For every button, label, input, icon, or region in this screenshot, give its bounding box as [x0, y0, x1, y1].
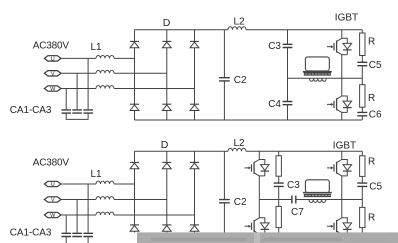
terminal U (top): [44, 56, 61, 61]
watermark gray band: [137, 232, 398, 243]
wire IGBT2 emitter to DC- (top): [341, 112, 343, 120]
svg-text:C3: C3: [268, 41, 281, 52]
wire bridge leg 3 (top): [194, 30, 196, 120]
svg-text:C5: C5: [369, 181, 382, 192]
wire left leg middle (bottom): [258, 176, 260, 218]
capacitor C2 (bottom): [219, 200, 230, 203]
resistor R upper-left (bottom): [276, 156, 281, 176]
inductor L1 phase V coil (bottom): [96, 197, 114, 200]
IGBT Q4 lower-left (bottom): [244, 218, 269, 234]
inductor L1 phase W coil (bottom): [96, 212, 114, 215]
wire left snubber column (bottom): [278, 151, 280, 237]
diode D5 upper leg3 (bottom): [190, 162, 199, 168]
wire stub V to CA2 (bottom): [76, 200, 78, 233]
diode D2 lower leg3 (bottom): [190, 225, 199, 231]
wire phase W to L1 and bridge leg 3 (bottom): [61, 214, 195, 216]
wire stub U to CA3 (top): [87, 58, 89, 109]
svg-text:R: R: [368, 36, 375, 47]
terminal V (top): [44, 71, 61, 76]
svg-text:IGBT: IGBT: [335, 13, 358, 24]
resistor R lower-left (bottom): [276, 206, 281, 227]
diode D6 lower leg2 (top): [162, 104, 171, 110]
svg-text:R: R: [368, 93, 375, 104]
svg-text:L2: L2: [233, 16, 245, 27]
svg-text:L1: L1: [90, 42, 102, 53]
resistor R lower-right (bottom): [360, 207, 365, 227]
capacitor CA1 (top): [62, 110, 72, 113]
diode D5 upper leg3 (top): [190, 41, 199, 47]
svg-text:C2: C2: [234, 197, 247, 208]
wire mid rail (top): [288, 77, 363, 79]
diode D6 lower leg2 (bottom): [162, 225, 171, 231]
diode D1 upper leg1 (top): [130, 41, 139, 47]
wire phase V to L1 and bridge leg 2 (bottom): [61, 199, 167, 201]
wire IGBT2 collector (top): [341, 78, 343, 96]
wire bridge leg 1 (top): [134, 30, 136, 120]
svg-text:R: R: [368, 212, 375, 223]
diode D3 upper leg2 (top): [162, 41, 171, 47]
inductor L1 phase U coil (bottom): [96, 181, 114, 184]
core lamination hatch bar (top): [304, 73, 331, 75]
capacitor C3 (top): [283, 44, 293, 47]
inductor L1 phase U coil (top): [96, 56, 114, 59]
svg-text:C6: C6: [369, 109, 382, 120]
induction coil of load transformer (top): [309, 78, 326, 81]
diode D3 upper leg2 (bottom): [162, 162, 171, 168]
capacitor C7 (bottom): [292, 196, 296, 204]
wire DC+ top rail (top): [135, 29, 363, 31]
wire C3/C4 branch (top): [287, 30, 289, 120]
resistor R upper-right (bottom): [360, 156, 365, 177]
resistor R lower (top): [360, 85, 365, 108]
svg-text:V: V: [51, 198, 55, 204]
resistor R upper (top): [360, 33, 365, 56]
wire DC+ top rail (bottom): [135, 150, 363, 152]
svg-text:D: D: [161, 139, 169, 151]
IGBT Q3 upper-left (bottom): [244, 160, 269, 176]
wire phase U to L1 and bridge leg 1 (bottom): [61, 183, 135, 185]
svg-text:C7: C7: [291, 207, 304, 218]
svg-text:L1: L1: [90, 169, 102, 180]
wire right snubber column (bottom): [361, 151, 363, 240]
svg-text:C5: C5: [369, 60, 382, 71]
capacitor CA2 (top): [72, 110, 82, 113]
terminal W (bottom): [44, 212, 61, 217]
svg-text:V: V: [51, 71, 55, 77]
inductor L1 phase W coil (top): [96, 86, 114, 89]
wire phase U to L1 and bridge leg 1 (top): [61, 57, 135, 59]
capacitor C4 (top): [283, 102, 293, 105]
inductor L2 (bottom): [228, 148, 246, 151]
terminal V (bottom): [44, 197, 61, 202]
svg-text:W: W: [50, 213, 56, 219]
capacitor CA3 (top): [83, 110, 93, 113]
wire bridge leg 3 (bottom): [194, 151, 196, 237]
svg-text:D: D: [163, 17, 171, 29]
svg-text:AC380V: AC380V: [33, 157, 70, 168]
wire stub V to CA2 (top): [76, 73, 78, 109]
inductor L1 phase V coil (top): [96, 70, 114, 73]
IGBT Q6 lower-right (bottom): [327, 218, 352, 234]
diode D4 lower leg1 (bottom): [130, 225, 139, 231]
induction coil of load transformer (bottom): [309, 200, 326, 203]
wire phase W to L1 and bridge leg 3 (top): [61, 88, 195, 90]
capacitor CA2 (bottom): [72, 233, 82, 236]
wire IGBT1 emitter to mid rail (top): [341, 55, 343, 79]
wire snubber column upper (top): [361, 30, 363, 85]
wire CA bank bottom bus (top): [66, 113, 88, 119]
capacitor C2 (top): [219, 78, 230, 81]
diode D2 lower leg3 (top): [190, 104, 199, 110]
svg-text:L2: L2: [233, 138, 245, 149]
IGBT Q2 lower (top): [327, 96, 352, 112]
wire right leg middle (bottom): [341, 176, 343, 218]
svg-text:CA1-CA3: CA1-CA3: [10, 227, 52, 238]
capacitor CA1 (bottom): [62, 233, 72, 236]
svg-text:R: R: [368, 156, 375, 167]
inductor L2 (top): [228, 27, 246, 30]
diode D1 upper leg1 (bottom): [130, 162, 139, 168]
svg-text:U: U: [51, 56, 55, 62]
wire stub W to CA1 (bottom): [65, 215, 67, 233]
svg-text:C3: C3: [287, 180, 300, 191]
IGBT Q1 upper (top): [327, 38, 352, 54]
wire mid link left part with C7 (bottom): [259, 199, 362, 201]
workpiece box above induction coil (top): [305, 57, 329, 71]
wire left leg collector (bottom): [258, 151, 260, 159]
capacitor C5 (top): [357, 62, 367, 65]
wire left leg emitter to DC- (bottom): [258, 234, 260, 237]
wire C2 branch (bottom): [223, 151, 225, 237]
wire DC- bottom rail (top): [135, 119, 363, 121]
capacitor CA3 (bottom): [83, 233, 93, 236]
capacitor C5 (bottom): [357, 183, 367, 186]
wire DC- bottom rail (bottom): [140, 236, 362, 238]
capacitor C3 (bottom): [274, 183, 284, 186]
core lamination hatch bar (bottom): [304, 194, 331, 196]
IGBT Q5 upper-right (bottom): [327, 160, 352, 176]
svg-text:C4: C4: [268, 99, 281, 110]
workpiece box above induction coil (bottom): [305, 180, 329, 193]
svg-text:W: W: [50, 87, 56, 93]
wire bridge leg 2 (top): [166, 30, 168, 120]
diode D4 lower leg1 (top): [130, 104, 139, 110]
terminal W (top): [44, 86, 61, 91]
svg-text:C2: C2: [234, 75, 247, 86]
wire bridge leg 2 (bottom): [166, 151, 168, 237]
wire stub U to CA3 (bottom): [87, 184, 89, 233]
svg-text:AC380V: AC380V: [33, 41, 70, 52]
svg-text:CA1-CA3: CA1-CA3: [10, 105, 52, 116]
wire bridge leg 1 (bottom): [134, 151, 136, 232]
capacitor C6 (bottom, under watermark): [357, 234, 367, 237]
wire phase V to L1 and bridge leg 2 (top): [61, 72, 167, 74]
wire IGBT1 collector (top): [341, 30, 343, 39]
terminal U (bottom): [44, 181, 61, 186]
capacitor C6 (top): [357, 112, 367, 115]
svg-text:IGBT: IGBT: [333, 140, 356, 151]
svg-text:U: U: [51, 182, 55, 188]
wire stub W to CA1 (top): [65, 89, 67, 110]
wire CA bank bottom stubs (bottom): [66, 237, 88, 243]
wire C2 branch (top): [223, 30, 225, 120]
wire right leg collector (bottom): [341, 151, 343, 159]
wire right leg emitter to DC- (bottom): [341, 234, 343, 237]
wire snubber column lower (top): [361, 107, 363, 120]
